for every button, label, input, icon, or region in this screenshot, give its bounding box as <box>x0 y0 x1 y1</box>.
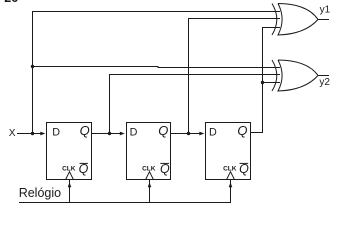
svg-text:Q: Q <box>158 123 168 138</box>
svg-text:Q: Q <box>237 123 247 138</box>
svg-text:CLK: CLK <box>142 165 156 172</box>
svg-text:D: D <box>130 126 138 138</box>
svg-text:D: D <box>209 126 217 138</box>
svg-text:Q: Q <box>80 123 90 138</box>
svg-text:Relógio: Relógio <box>19 186 61 200</box>
svg-text:D: D <box>52 126 60 138</box>
svg-text:y2: y2 <box>319 77 330 88</box>
svg-text:26: 26 <box>4 0 18 5</box>
svg-text:CLK: CLK <box>62 165 76 172</box>
svg-text:CLK: CLK <box>223 165 237 172</box>
svg-text:y1: y1 <box>320 4 331 15</box>
svg-text:X: X <box>9 128 16 139</box>
svg-text:Q: Q <box>160 162 170 176</box>
svg-text:Q: Q <box>239 162 249 176</box>
svg-text:Q: Q <box>79 162 89 176</box>
